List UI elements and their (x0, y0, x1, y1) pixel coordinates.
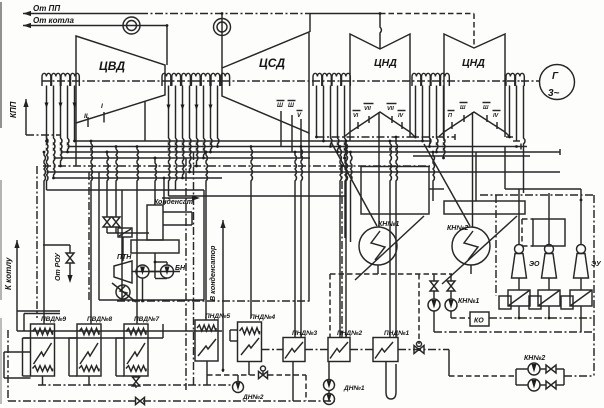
LP heater PND2 (328, 338, 350, 362)
svg-text:ЦВД: ЦВД (99, 59, 125, 73)
svg-text:ПНД№3: ПНД№3 (292, 330, 318, 337)
svg-text:От РОУ: От РОУ (55, 252, 62, 281)
condensate valve right of PND1 (414, 346, 424, 354)
PTN condenser circle (116, 285, 130, 299)
header line y172 (47, 171, 561, 173)
gland seals between TsSD and TsND1 (313, 73, 322, 86)
wire riser to TsSD inlet (221, 14, 223, 69)
crossover pipe to TsND1 (380, 14, 382, 50)
drop to PND1 b (396, 137, 398, 338)
svg-text:ПВД№7: ПВД№7 (134, 316, 160, 323)
drop to PND4 a (251, 147, 253, 319)
exhaust duct rect TsND2 (444, 201, 525, 214)
svg-text:ПНД№4: ПНД№4 (250, 314, 276, 321)
loop bottom y300 (99, 299, 204, 301)
turbine shaft axis (42, 80, 521, 82)
deaerator inlet stub (163, 211, 192, 213)
circulating water stub KN1 (331, 142, 377, 226)
TsVD extraction drop x145 (144, 101, 146, 141)
steam line from reheater (Ot PP) (23, 11, 31, 16)
junction dots (43, 151, 46, 154)
KN2 valve b (540, 384, 546, 386)
ROU reducing device (118, 228, 132, 237)
svg-text:Ш: Ш (288, 103, 294, 109)
header line y178 (54, 177, 223, 179)
ejector cooler 1 (518, 278, 520, 290)
svg-text:От котла: От котла (33, 16, 74, 25)
extraction tick IV on TsSD (291, 115, 293, 152)
gland steam pipe x345 (345, 158, 347, 238)
extraction tick I on TsVD (103, 112, 105, 123)
dashdot drop x193 (193, 152, 195, 385)
KN2 pump a (528, 363, 540, 375)
TsND2 corner stubs (443, 132, 445, 141)
left ejector feed dashdot (495, 195, 497, 296)
wire drop to TsVD inlet (166, 26, 168, 66)
extraction tick II on TsVD (87, 117, 89, 127)
header line y166 dashdot (43, 165, 430, 167)
header segment y156 right (413, 155, 530, 157)
LP heater PND4 (238, 322, 262, 362)
svg-text:ЦСД: ЦСД (259, 56, 285, 70)
svg-text:БН: БН (175, 265, 186, 272)
circulating water stub KN2 (424, 144, 470, 226)
wire riser from TsSD exhaust (309, 14, 311, 33)
svg-text:ПТН: ПТН (117, 254, 132, 261)
right dashdot drop x594 (593, 195, 595, 318)
condensate pump KN1b (445, 299, 457, 311)
ejector box solid (533, 219, 565, 246)
svg-text:КПП: КПП (9, 101, 18, 118)
drain vertical from hotwell (418, 274, 420, 344)
ROU steam drop 2 (116, 147, 118, 218)
condensate valve 2 (450, 274, 452, 281)
tick IX TsND1 (401, 122, 403, 129)
condensate pump KN1a (428, 299, 440, 311)
ROU to PTN line (122, 237, 124, 261)
svg-text:I: I (101, 103, 103, 110)
HP heater PVD7 (124, 324, 148, 376)
LP heater PND5 (195, 320, 218, 361)
gland seals right of TsND2 (506, 73, 515, 86)
header line y146 (68, 146, 522, 148)
ejector drains (518, 306, 520, 318)
svg-text:ДН№2: ДН№2 (242, 394, 264, 401)
seal pipes right of TsND2 (509, 86, 511, 138)
IP cylinder TsSD (222, 32, 309, 133)
deaerator steam drop (155, 158, 157, 205)
drop to PND1 a (390, 141, 392, 338)
header segment y196 (169, 195, 346, 197)
TsSD corner drop (308, 133, 310, 196)
LP heater PND1 (373, 338, 398, 362)
tick II TsND2 (451, 122, 453, 129)
LP cylinder TsND1 (350, 34, 410, 132)
lower drain dashdot (8, 400, 335, 402)
KO link (451, 317, 470, 319)
dashdot drop left of PVD9 (36, 166, 38, 318)
svg-text:От ПП: От ПП (33, 4, 60, 13)
condensate valve 1 (433, 274, 435, 281)
drop to PND5 a (206, 152, 208, 320)
seal pipes TsND1-TsND2 group (415, 86, 417, 138)
ejector riser 2 (548, 193, 550, 245)
condenser KN1 (359, 227, 397, 265)
ejector supply dashdot y195 (480, 194, 594, 196)
duct link TsND2 (475, 152, 477, 201)
ejector cooler 2 (548, 278, 550, 290)
condenser feed drop TsND2 (472, 112, 474, 227)
ROU steam drop 1 (107, 152, 109, 217)
svg-text:К котлу: К котлу (4, 257, 13, 290)
exhaust duct rect TsND1 (361, 167, 429, 215)
loop line x204 (203, 190, 205, 300)
header line y137 dashdot right (317, 136, 456, 138)
PND5 bottom drain (206, 361, 208, 385)
ejector supply solid y189 (505, 188, 581, 190)
gland seals between TsND1 and TsND2 (412, 73, 421, 86)
svg-text:ЦНД: ЦНД (462, 57, 485, 69)
tick VI TsND1 (357, 122, 359, 129)
pump discharge lines (433, 311, 435, 332)
hotwell link dashed (330, 273, 452, 275)
dashdot drop x89 (88, 172, 90, 300)
feedwater loop left box (3, 352, 5, 378)
svg-text:ЦНД: ЦНД (374, 57, 397, 69)
svg-text:КН№1: КН№1 (378, 221, 399, 228)
condenser KN2 (452, 227, 490, 265)
seal pipes TsSD-TsND1 group (316, 86, 318, 138)
TsND1 corner stubs (349, 132, 351, 141)
booster pump BN (161, 265, 174, 278)
KO box (470, 312, 489, 326)
ejector 2 (545, 245, 554, 254)
seal pipes TsVD-TsSD group (169, 86, 171, 197)
right drain dashdot y332 (434, 331, 594, 333)
stop valve on boiler line (123, 17, 140, 34)
svg-text:КО: КО (474, 318, 484, 325)
svg-text:Ш: Ш (460, 105, 466, 111)
svg-text:3~: 3~ (548, 88, 560, 99)
feed pump VN (136, 265, 149, 278)
circulating water diagonal KN1 (355, 216, 424, 280)
PND3 bottom drain (292, 362, 294, 402)
KN2 pump b (528, 379, 540, 391)
svg-text:VI: VI (353, 113, 359, 119)
KN2 valve a (540, 368, 546, 370)
KN2 pump branch lines (448, 350, 450, 377)
drain pump DN1 upper (328, 362, 330, 380)
tick V TsND2 (496, 122, 498, 129)
ejector EU (577, 245, 586, 254)
tick VIII TsND1 (391, 116, 393, 123)
drop to duct B (433, 152, 435, 201)
extraction drop to PVD7 (137, 147, 139, 325)
drop to PND2 a (340, 147, 342, 338)
svg-text:II: II (84, 113, 88, 120)
PVD7 drain valve (135, 376, 137, 377)
svg-text:ПНД№5: ПНД№5 (205, 313, 231, 320)
ejector cooler 3 (580, 278, 582, 290)
BN recirculation loop (155, 261, 167, 263)
PVD drain stubs (42, 376, 44, 385)
TsND1 exhaust leg extensions (345, 132, 351, 137)
right edge drop (593, 318, 595, 376)
drain pump DN2 (248, 362, 250, 376)
KN2 branch join (563, 369, 565, 385)
drop to PND2 b (346, 141, 348, 338)
cold reheat line to reheater (23, 99, 28, 107)
ROU collector line (107, 232, 149, 234)
svg-text:ЭУ: ЭУ (591, 261, 602, 268)
svg-text:Ш: Ш (277, 103, 283, 109)
dashdot drop x186 (185, 158, 187, 390)
header line y190 (47, 189, 205, 191)
HP cylinder TsVD (76, 36, 165, 123)
TsSD corner drop extension (308, 196, 310, 301)
to-condenser line (220, 220, 225, 228)
drop to PND3 a (295, 152, 297, 338)
condensate line between PND heaters (305, 349, 328, 351)
svg-text:ПНД№2: ПНД№2 (337, 330, 363, 337)
extraction drop to PVD8 (91, 141, 93, 324)
PND1 drain U-loop (386, 362, 396, 400)
ROU valve 1 (103, 217, 111, 227)
header line y141 (75, 140, 431, 142)
svg-text:VII: VII (364, 106, 371, 112)
gland seals between TsVD and TsSD (162, 73, 171, 86)
seal pipes TsVD left (47, 86, 49, 191)
loop line x99 (98, 172, 100, 300)
ejector box dashed edge (521, 219, 523, 246)
LP cylinder TsND2 (444, 34, 505, 132)
tick VII TsND1 (368, 116, 370, 123)
seal steam drop x523 (523, 147, 525, 194)
svg-text:VII: VII (387, 106, 394, 112)
seal steam drop x505 (504, 147, 506, 190)
svg-text:КН№1: КН№1 (458, 298, 479, 305)
loop line x122 (121, 190, 123, 300)
HP heater PVD9 (31, 324, 55, 376)
tick III TsND2 (463, 115, 465, 122)
main steam line from boiler (23, 23, 31, 28)
feed turbine PTN (114, 261, 132, 283)
vent caps on seal pipes (506, 136, 513, 138)
drain pump DN1 lower (328, 391, 330, 394)
drop to PND3 b (301, 147, 303, 338)
svg-text:В конденсатор: В конденсатор (208, 245, 217, 301)
gland seals TsVD left (42, 73, 51, 86)
gland steam pipe x350 (351, 152, 353, 242)
LP heater PND3 (283, 338, 305, 362)
svg-text:КН№2: КН№2 (447, 225, 468, 232)
svg-text:ПВД№8: ПВД№8 (87, 316, 113, 323)
PTN shaft (132, 271, 161, 273)
svg-text:ДН№1: ДН№1 (343, 385, 365, 392)
deaerator tank (131, 240, 179, 253)
deaerator outlet (154, 253, 156, 262)
ROU valve 2 (112, 217, 120, 227)
TsND2 exhaust leg extensions (439, 132, 444, 137)
drain valve horizontal (136, 397, 145, 404)
condenser feed drop TsND1 (378, 112, 380, 227)
extraction tick III on TsSD (280, 111, 282, 147)
header segment y188 right (429, 188, 444, 190)
crossover pipe to TsND2 (473, 14, 475, 49)
svg-text:Ш: Ш (483, 105, 489, 111)
circulating water diagonal KN2 (442, 216, 517, 284)
ejector riser 1 (518, 189, 520, 245)
PVD drain header dashdot (38, 384, 232, 386)
from-ROU line with valve (69, 245, 71, 253)
scan edge mark (0, 2, 2, 128)
HP heater PVD8 (77, 324, 101, 376)
PTN condenser drain (142, 278, 144, 301)
feedwater double header upper (17, 310, 60, 312)
header line y158 (54, 157, 311, 159)
TsVD corner drop (75, 123, 77, 166)
ejector riser 3 (580, 189, 582, 245)
PTN drain header dashdot (117, 300, 310, 302)
generator G 3~ (540, 65, 575, 100)
extraction drop to PVD9 (44, 152, 46, 324)
stop valve on reheat line (214, 19, 231, 36)
DN2 discharge valve with actuator (207, 374, 258, 376)
tick IV TsND2 (486, 115, 488, 122)
extraction tick V on TsSD (300, 119, 302, 158)
svg-text:ПВД№9: ПВД№9 (41, 316, 67, 323)
ejector EO (515, 245, 524, 254)
feedwater line to boiler (14, 240, 19, 248)
feedwater header through PVD heaters (17, 330, 222, 332)
svg-text:Г: Г (552, 71, 559, 82)
deaerator column (147, 205, 163, 240)
header end caps (454, 134, 456, 140)
svg-text:КН№2: КН№2 (524, 355, 545, 362)
dashdot drop x342 to DN1 (341, 166, 343, 338)
svg-text:ЭО: ЭО (529, 261, 540, 268)
deaerator condensate inlet (163, 178, 165, 205)
header line y152 (61, 151, 561, 153)
svg-text:ПНД№1: ПНД№1 (384, 330, 410, 337)
